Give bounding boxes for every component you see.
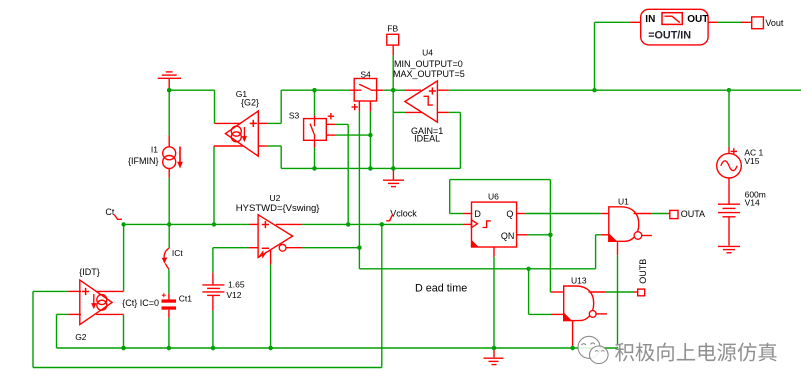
svg-text:MAX_OUTPUT=5: MAX_OUTPUT=5 [393, 69, 465, 79]
svg-text:{IFMIN}: {IFMIN} [128, 156, 159, 166]
svg-text:OUTB: OUTB [638, 259, 648, 284]
svg-text:QN: QN [501, 231, 515, 241]
svg-text:Vout: Vout [765, 18, 784, 28]
svg-text:D ead time: D ead time [415, 282, 467, 294]
svg-text:IDEAL: IDEAL [414, 134, 440, 144]
svg-text:U4: U4 [422, 48, 433, 58]
svg-text:HYSTWD={Vswing}: HYSTWD={Vswing} [236, 203, 320, 214]
svg-text:I1: I1 [151, 145, 158, 155]
svg-text:D: D [474, 209, 481, 219]
svg-text:U1: U1 [618, 196, 629, 206]
svg-text:V14: V14 [745, 198, 760, 208]
svg-text:IN: IN [645, 14, 655, 25]
svg-text:{Ct} IC=0: {Ct} IC=0 [122, 298, 159, 308]
svg-text:V15: V15 [744, 156, 759, 166]
svg-text:Ct1: Ct1 [179, 293, 193, 303]
svg-text:U13: U13 [571, 275, 587, 285]
svg-text:OUT: OUT [687, 14, 708, 25]
svg-text:{G2}: {G2} [241, 98, 259, 108]
svg-text:G2: G2 [75, 332, 87, 342]
svg-text:Vclock: Vclock [390, 208, 417, 218]
svg-text:FB: FB [387, 23, 398, 33]
svg-text:=OUT/IN: =OUT/IN [648, 30, 691, 42]
svg-text:MIN_OUTPUT=0: MIN_OUTPUT=0 [394, 59, 463, 69]
svg-text:U6: U6 [488, 191, 499, 201]
svg-text:U2: U2 [270, 193, 281, 203]
svg-text:V12: V12 [226, 290, 241, 300]
svg-text:OUTA: OUTA [681, 209, 705, 219]
svg-text:{IDT}: {IDT} [79, 267, 100, 277]
svg-text:S4: S4 [360, 69, 371, 79]
svg-text:1.65: 1.65 [228, 280, 245, 290]
svg-text:S3: S3 [289, 111, 300, 121]
svg-text:Ct: Ct [105, 207, 114, 217]
svg-text:Q: Q [506, 209, 513, 219]
svg-text:ICt: ICt [172, 248, 184, 258]
